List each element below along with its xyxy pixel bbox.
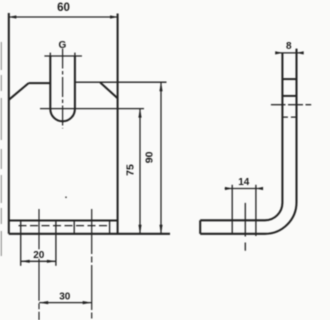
slot G: bottom arc bbox=[50, 109, 75, 121]
svg-text:90: 90 bbox=[144, 151, 156, 163]
dimension 20: dimension line bbox=[21, 260, 56, 262]
dimension 30: right arrowhead bbox=[83, 301, 92, 304]
dimension 60: right arrowhead bbox=[110, 15, 118, 18]
dimension 60: dimension line bbox=[9, 16, 118, 18]
svg-text:75: 75 bbox=[125, 164, 137, 176]
dimension 20: left arrowhead bbox=[21, 260, 30, 263]
side view: hidden slot bottom line bbox=[282, 116, 296, 118]
svg-text:20: 20 bbox=[33, 250, 45, 261]
dimension 75: top arrowhead bbox=[138, 109, 141, 118]
svg-text:60: 60 bbox=[57, 2, 70, 14]
dimension 8: dimension line bbox=[277, 52, 302, 54]
front view: left chamfer bbox=[9, 83, 29, 100]
dimension 14: left arrowhead (outside) bbox=[225, 187, 232, 190]
flange slot A right end mark + 20-dim extension bbox=[55, 221, 57, 266]
svg-text:14: 14 bbox=[238, 177, 250, 188]
dimension 60: left arrowhead bbox=[9, 15, 16, 18]
dimension G: dimension line bbox=[44, 55, 82, 57]
dimension 75: dimension line bbox=[139, 109, 141, 234]
side view: hole vertical centerline lower segment bbox=[244, 243, 246, 251]
front view: plate left edge (with 60-dim extension) bbox=[8, 13, 10, 234]
dimension 14: left extension line bbox=[231, 185, 233, 234]
flange slot B left end mark bbox=[73, 221, 75, 234]
slot G: right edge bbox=[74, 56, 76, 109]
front view: plate right edge (with 60-dim extension) bbox=[117, 14, 119, 234]
side view: slot arc center horizontal centerline segment 3 bbox=[306, 104, 312, 106]
side view: strip left edge, inner bend radius, leg top edge bbox=[200, 53, 282, 220]
front view: plate bottom edge with 75/90 extension bbox=[9, 233, 170, 235]
flange slot B right end mark bbox=[109, 221, 111, 234]
side view: chamfer edge rung bbox=[282, 95, 296, 97]
dimension 75: extension line at slot arc center bbox=[40, 108, 144, 110]
dimension 14: right extension line bbox=[255, 185, 257, 236]
dimension 14: dimension line bbox=[225, 188, 262, 190]
dimension 75: bottom arrowhead bbox=[138, 225, 141, 234]
svg-text:30: 30 bbox=[59, 292, 71, 303]
dimension 90: dimension line bbox=[160, 82, 162, 234]
dimension 30: left arrowhead bbox=[39, 301, 48, 304]
dimension 8: left arrowhead (outside) bbox=[275, 51, 282, 54]
front view: right chamfer bbox=[100, 83, 117, 99]
side view: shoulder edge rung bbox=[282, 78, 296, 80]
front view: left shoulder edge bbox=[29, 82, 51, 84]
speck artifact bbox=[65, 196, 67, 198]
flange slot A centerline upper segment bbox=[38, 209, 40, 249]
flange slot B centerline bbox=[91, 209, 93, 320]
flange slot A centerline lower segment bbox=[38, 259, 40, 320]
front view: right shoulder edge with 90-dim extension line bbox=[75, 81, 167, 83]
front view: bend line at flange bbox=[9, 220, 118, 222]
dimension G: left tick bbox=[49, 53, 51, 60]
side view: strip right edge, outer bend radius, leg bottom edge bbox=[200, 49, 296, 234]
dimension 90: top arrowhead bbox=[159, 82, 162, 91]
side view: leg left end edge bbox=[199, 220, 201, 234]
slot G: left edge bbox=[49, 56, 51, 109]
svg-text:G: G bbox=[59, 40, 67, 51]
front view: hidden slot line in flange bbox=[19, 225, 111, 227]
dimension 8: right arrowhead (outside) bbox=[297, 51, 304, 54]
flange slot A left end mark + 20-dim extension bbox=[20, 221, 22, 266]
side view: hole vertical centerline upper segment bbox=[244, 203, 246, 237]
side view: slot arc center horizontal centerline segment 1 bbox=[271, 104, 286, 106]
dimension 90: bottom arrowhead bbox=[159, 225, 162, 234]
dimension 14: right arrowhead (outside) bbox=[256, 187, 263, 190]
scan border artifact line bbox=[0, 42, 2, 256]
side view: slot arc center horizontal centerline segment 2 bbox=[288, 104, 303, 106]
slot G: vertical centerline bbox=[62, 49, 64, 129]
svg-text:8: 8 bbox=[286, 41, 292, 52]
dimension G: right tick bbox=[74, 53, 76, 60]
dimension 20: right arrowhead bbox=[47, 260, 56, 263]
dimension 30: dimension line bbox=[39, 302, 91, 304]
